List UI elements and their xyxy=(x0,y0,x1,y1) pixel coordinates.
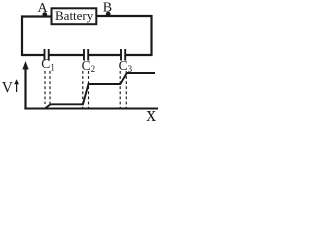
capacitor C2 plates xyxy=(83,49,85,61)
svg-text:B: B xyxy=(103,0,112,15)
svg-text:x: x xyxy=(146,101,156,125)
dashed drop lines under C3 xyxy=(119,71,121,108)
wire bottom segment 2 xyxy=(49,54,84,56)
wire bottom segment 4 xyxy=(125,54,152,56)
wire top-right segment xyxy=(96,15,153,17)
svg-text:Battery: Battery xyxy=(55,8,94,23)
V axis arrowhead xyxy=(22,61,28,70)
V(x) curve xyxy=(26,73,156,109)
capacitor C3 plates xyxy=(120,49,122,61)
dashed drop lines under C1 xyxy=(44,71,46,104)
wire left vertical xyxy=(21,16,23,57)
node B dot xyxy=(106,12,111,17)
dashed drop lines under C2 xyxy=(82,71,84,108)
node A dot xyxy=(42,12,47,17)
wire bottom segment 3 xyxy=(88,54,121,56)
svg-text:A: A xyxy=(38,1,49,16)
capacitor C1 plates xyxy=(44,49,46,61)
wire top-left segment xyxy=(21,15,52,17)
V axis xyxy=(24,66,26,110)
x axis xyxy=(24,108,158,110)
battery U1 box xyxy=(52,8,97,24)
wire bottom segment 1 xyxy=(21,54,45,56)
small up-arrow after V xyxy=(16,81,18,92)
svg-text:V: V xyxy=(2,80,14,97)
wire right vertical xyxy=(150,15,152,56)
